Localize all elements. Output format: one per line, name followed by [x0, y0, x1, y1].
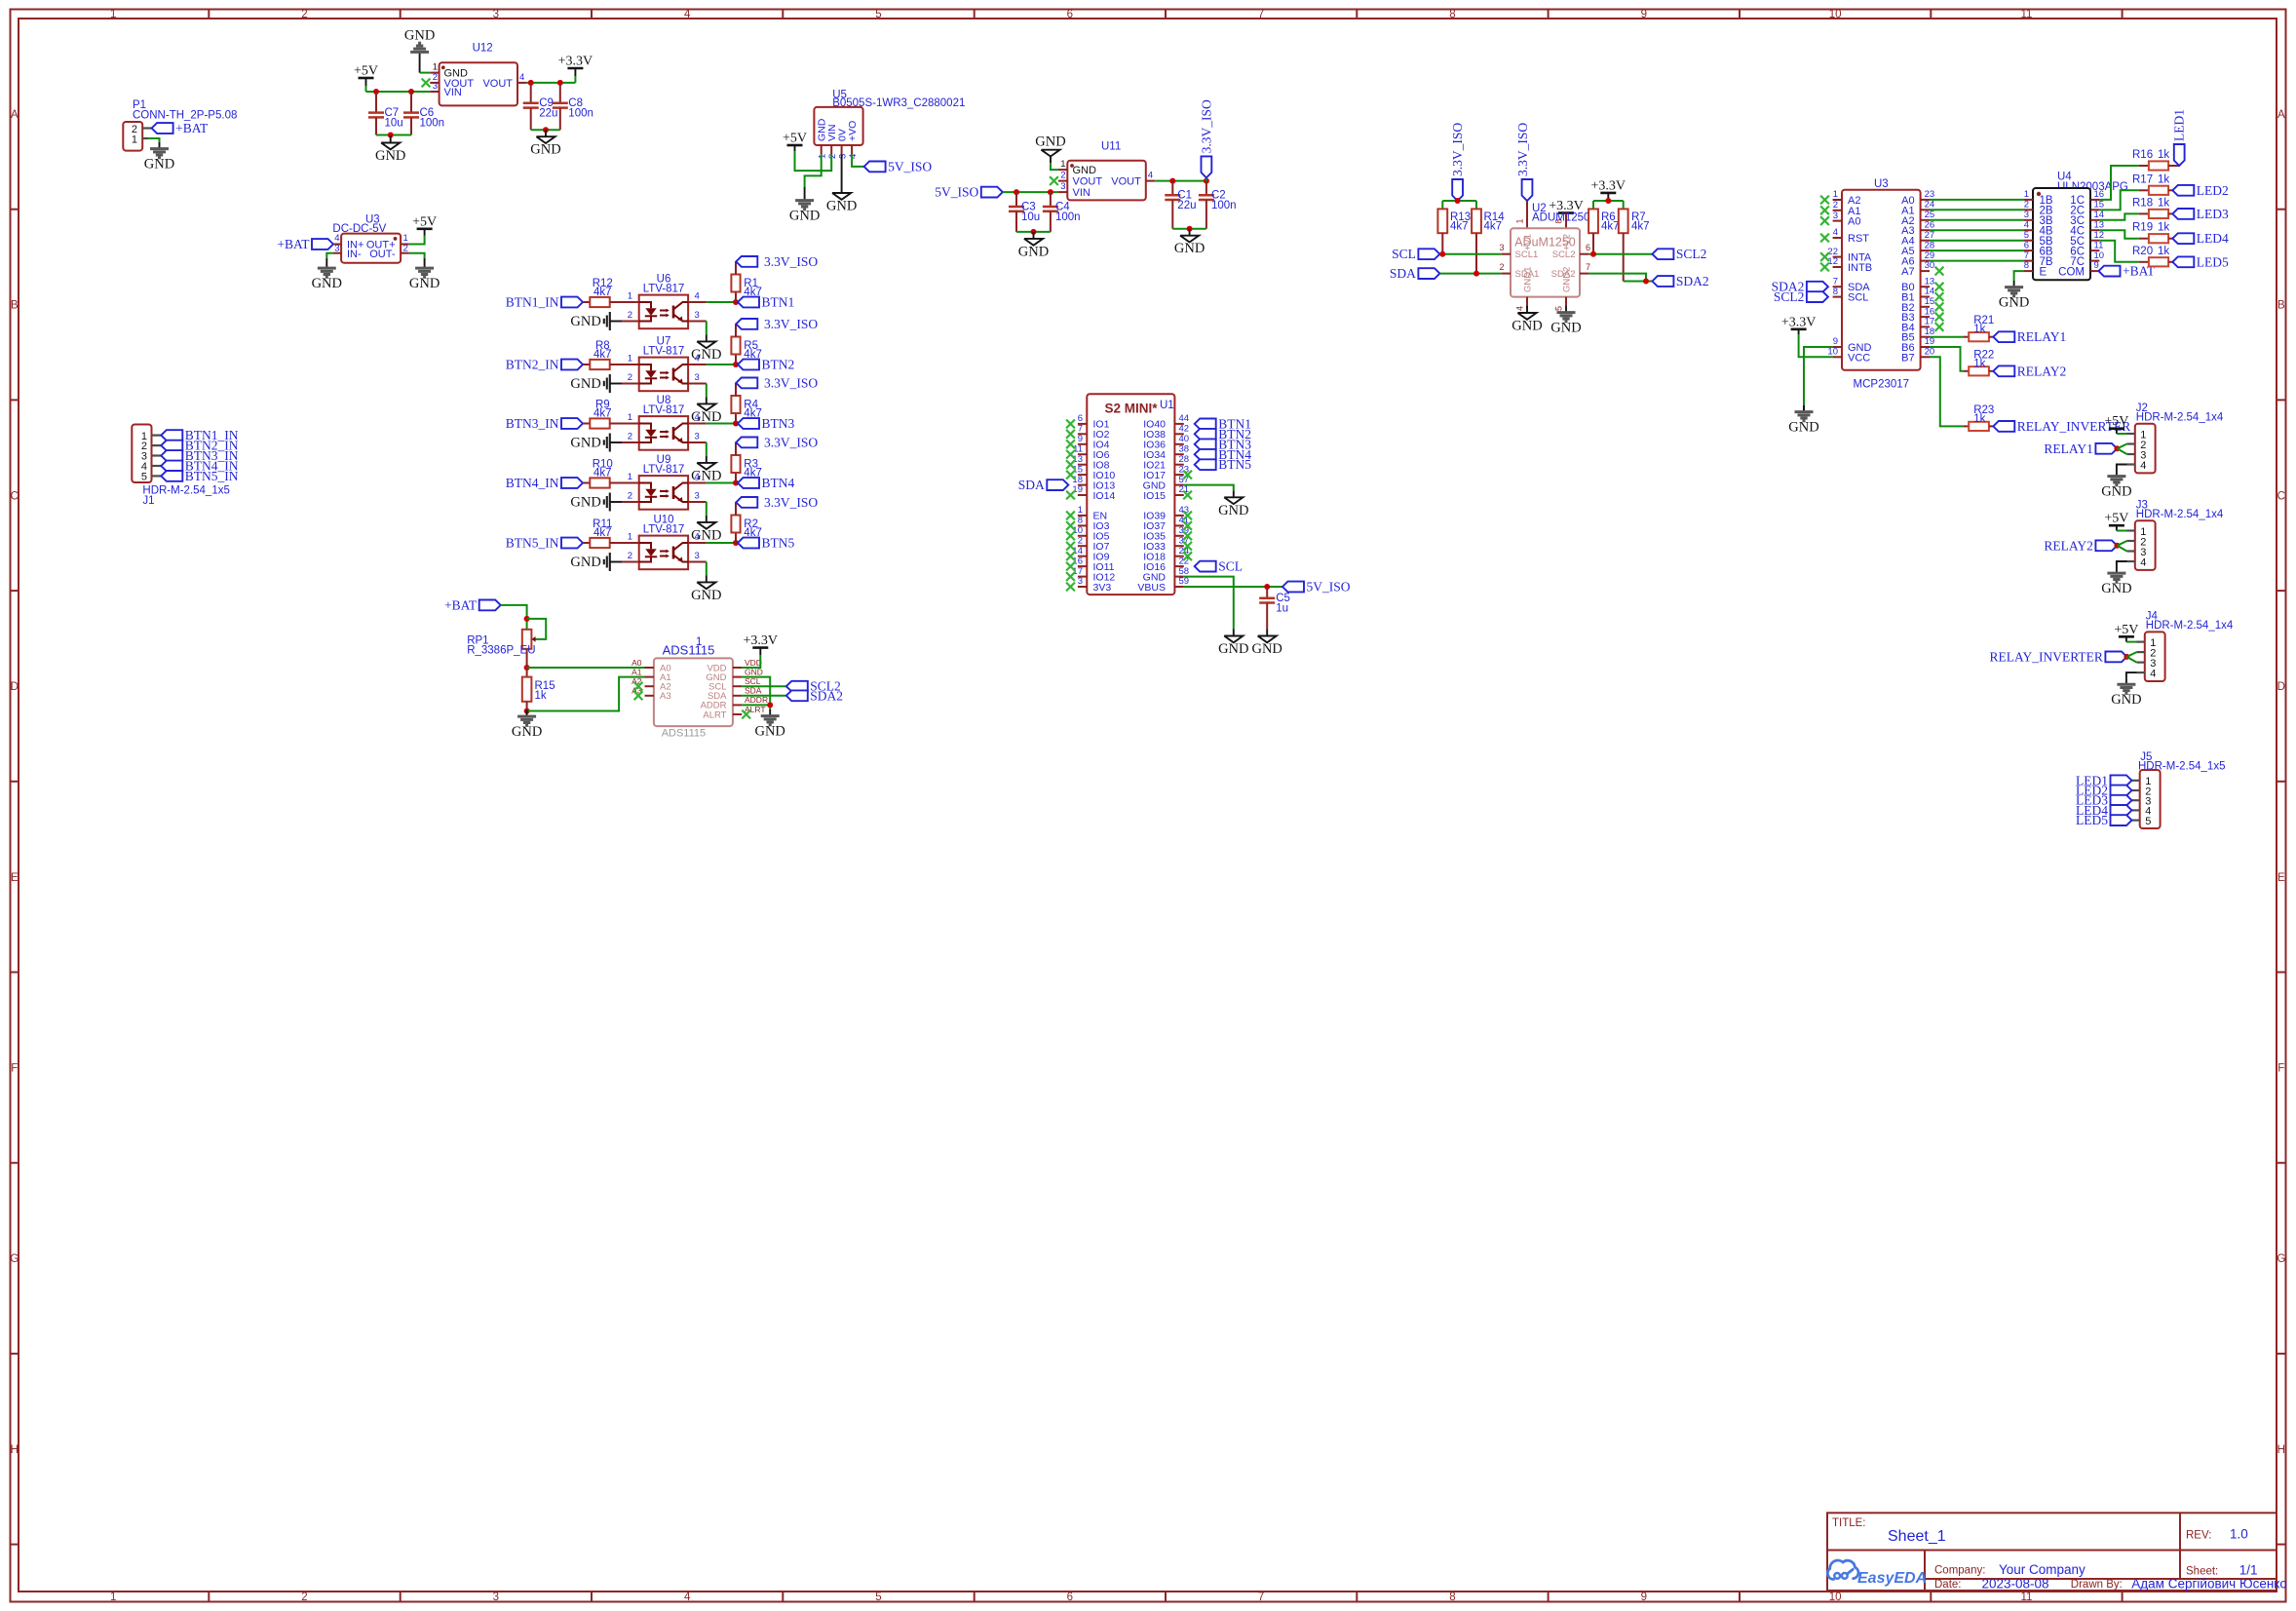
svg-text:F: F	[2277, 1063, 2284, 1075]
svg-text:2: 2	[1833, 200, 1838, 211]
svg-text:EasyEDA: EasyEDA	[1857, 1570, 1927, 1587]
net flag LED1 at J5	[2076, 773, 2132, 787]
svg-text:REV:: REV:	[2186, 1530, 2211, 1542]
svg-text:+3.3V: +3.3V	[1781, 315, 1817, 329]
svg-text:19: 19	[1072, 484, 1083, 495]
potentiometer RP1 R_3386P_EU	[467, 619, 546, 657]
wire +5V to J3 pin1	[2117, 530, 2127, 532]
ground GND below C7 C6	[375, 136, 405, 165]
wire U9 pin3 to ground	[688, 502, 707, 516]
svg-text:U3: U3	[1874, 178, 1889, 190]
svg-text:BTN5_IN: BTN5_IN	[185, 469, 239, 483]
svg-text:Date:: Date:	[1934, 1579, 1962, 1591]
net flag BTN2_IN at J1	[161, 439, 238, 453]
svg-text:1k: 1k	[1973, 358, 1985, 369]
wire GND to U12 pin1	[420, 72, 431, 74]
wire BTN4_IN to R10	[583, 482, 590, 484]
net flag SCL2	[1652, 247, 1706, 261]
svg-text:6: 6	[2024, 240, 2029, 250]
IC U5 B0505S-1WR3	[814, 90, 965, 160]
svg-text:1: 1	[110, 1592, 116, 1603]
wire SDA to U2 SDA1	[1439, 271, 1501, 277]
svg-text:12: 12	[2094, 230, 2105, 241]
resistor R14 4k7	[1472, 209, 1505, 273]
wire U4 output to R16	[2099, 166, 2139, 200]
svg-text:1k: 1k	[1973, 413, 1985, 425]
svg-text:1: 1	[2024, 189, 2029, 200]
svg-text:2: 2	[628, 372, 632, 383]
EasyEDA logo	[1827, 1560, 1927, 1587]
net flag LED5 at J5	[2076, 813, 2132, 827]
wire U2 SDA2 to flag	[1588, 274, 1652, 285]
wire BTN3_IN to R9	[583, 423, 590, 425]
net flag BTN3_IN	[506, 416, 583, 431]
svg-text:9: 9	[1641, 1592, 1647, 1603]
svg-text:6: 6	[1067, 1592, 1073, 1603]
svg-text:6: 6	[1586, 243, 1590, 252]
svg-text:OUT-: OUT-	[369, 249, 396, 260]
net flag LED2 at J5	[2076, 784, 2132, 798]
svg-text:J1: J1	[142, 495, 154, 507]
svg-text:INTB: INTB	[1848, 262, 1872, 274]
resistor R18 1k	[2132, 197, 2169, 218]
svg-text:GND: GND	[1999, 295, 2029, 311]
resistor R13 4k7	[1437, 209, 1471, 253]
svg-text:3: 3	[695, 491, 700, 502]
resistor R12 4k7	[590, 278, 613, 307]
svg-text:8: 8	[1833, 287, 1838, 297]
wire U10 pin4 to BTN5 node	[688, 540, 739, 546]
optocoupler U10 LTV-817	[628, 515, 700, 570]
svg-text:1: 1	[818, 154, 828, 159]
svg-text:GND: GND	[530, 142, 560, 158]
svg-text:1: 1	[628, 354, 632, 364]
svg-text:LED4: LED4	[2197, 231, 2229, 246]
svg-text:3.3V_ISO: 3.3V_ISO	[1515, 123, 1530, 176]
svg-text:U12: U12	[473, 43, 493, 55]
svg-text:E: E	[2040, 266, 2047, 278]
svg-text:A0: A0	[1848, 216, 1860, 228]
ground GND at U6 pin3	[691, 334, 721, 363]
svg-text:40: 40	[1179, 434, 1190, 444]
svg-text:LTV-817: LTV-817	[643, 346, 685, 358]
resistor R6 4k7	[1588, 209, 1619, 253]
svg-text:GND: GND	[409, 276, 440, 291]
svg-text:4k7: 4k7	[593, 408, 612, 420]
svg-text:ADS1115: ADS1115	[663, 643, 715, 658]
svg-text:B: B	[11, 300, 19, 312]
wire U1 VBUS to 5V_ISO	[1184, 584, 1282, 590]
wire +5V to J2 pin1	[2117, 433, 2127, 435]
svg-text:GND: GND	[1218, 503, 1248, 518]
svg-text:SCL: SCL	[1392, 247, 1416, 261]
capacitor C7 10u	[368, 92, 403, 135]
svg-text:1: 1	[1060, 159, 1065, 170]
ground GND at ADS1115	[754, 710, 784, 740]
connector J5 HDR-M-2.54_1x5	[2132, 751, 2226, 828]
svg-text:U11: U11	[1101, 141, 1121, 153]
svg-text:+5V: +5V	[2104, 512, 2128, 526]
svg-text:100n: 100n	[1055, 211, 1081, 223]
svg-text:5V_ISO: 5V_ISO	[888, 159, 932, 173]
resistor R15 1k	[522, 668, 555, 711]
svg-text:9: 9	[1078, 434, 1083, 444]
wire J3 pin4 to ground	[2117, 561, 2127, 567]
svg-text:4: 4	[684, 9, 691, 20]
svg-text:5: 5	[1554, 306, 1564, 311]
svg-text:100n: 100n	[420, 118, 445, 130]
net flag BTN4_IN	[506, 476, 583, 490]
svg-text:30: 30	[1925, 260, 1935, 271]
wire U6 pin4 to BTN1 node	[688, 299, 739, 305]
svg-text:A: A	[11, 109, 19, 121]
svg-text:+5V: +5V	[2114, 623, 2138, 637]
wire BTN1_IN to R12	[583, 301, 590, 303]
power +5V at J3	[2104, 512, 2128, 531]
svg-text:10u: 10u	[385, 118, 403, 130]
svg-text:58: 58	[1179, 566, 1190, 577]
svg-text:HDR-M-2.54_1x4: HDR-M-2.54_1x4	[2136, 509, 2224, 520]
svg-text:+3.3V: +3.3V	[744, 633, 779, 648]
svg-text:GND: GND	[1550, 321, 1581, 336]
net flag 3.3V_ISO at R4	[736, 375, 818, 390]
svg-text:GND: GND	[1035, 134, 1065, 150]
svg-text:2: 2	[1060, 171, 1065, 181]
svg-text:2: 2	[301, 1592, 307, 1603]
ground GND above U12	[404, 28, 435, 73]
svg-text:LTV-817: LTV-817	[643, 404, 685, 416]
power +3.3V at U3 VCC	[1781, 315, 1817, 334]
svg-text:4: 4	[684, 1592, 691, 1603]
net flag LED2	[2168, 183, 2229, 198]
svg-text:6: 6	[1067, 9, 1073, 20]
svg-text:3: 3	[334, 243, 339, 253]
capacitor C1 22u	[1165, 181, 1196, 229]
svg-text:1.0: 1.0	[2230, 1527, 2248, 1542]
svg-text:VIN: VIN	[444, 87, 462, 98]
wire RP1 to node A0	[524, 649, 645, 671]
svg-text:42: 42	[1179, 424, 1190, 435]
svg-text:6: 6	[1078, 413, 1083, 424]
svg-text:LTV-817: LTV-817	[643, 464, 685, 476]
power +5V at U12	[354, 64, 378, 87]
svg-text:3: 3	[695, 372, 700, 383]
net flag BTN2_IN	[506, 358, 583, 372]
wire U1 GND pin57 to ground	[1184, 485, 1234, 491]
wire U5 0V to ground	[841, 154, 843, 186]
net flag RELAY_INVERTER	[1993, 419, 2130, 434]
resistor R8 4k7	[590, 340, 611, 369]
svg-text:VCC: VCC	[1848, 352, 1870, 364]
svg-text:GND: GND	[2101, 484, 2131, 500]
ground GND at U8 pin2	[570, 434, 638, 452]
svg-text:F: F	[11, 1063, 18, 1075]
svg-text:R17: R17	[2132, 173, 2153, 185]
net flag 3.3V_ISO at U11 output	[1199, 99, 1213, 177]
svg-text:4: 4	[1833, 227, 1838, 238]
svg-text:4: 4	[1148, 171, 1153, 181]
svg-text:1: 1	[628, 412, 632, 423]
capacitor C8 100n	[553, 83, 593, 130]
power +3.3V at U2 +V2	[1549, 199, 1584, 228]
power +3.3V at U12 output	[558, 55, 593, 77]
svg-text:1k: 1k	[2158, 197, 2169, 209]
svg-text:1u: 1u	[1276, 603, 1288, 615]
svg-text:4: 4	[519, 72, 524, 83]
net flag RELAY2 at J3	[2044, 538, 2117, 553]
svg-text:LED5: LED5	[2076, 813, 2108, 827]
svg-text:23: 23	[1925, 189, 1935, 200]
svg-text:3: 3	[1499, 243, 1504, 252]
svg-text:12: 12	[1827, 256, 1838, 267]
svg-text:4k7: 4k7	[1450, 221, 1469, 233]
svg-text:D: D	[2277, 681, 2285, 693]
ground GND at U1 pin57	[1218, 490, 1248, 518]
svg-text:4k7: 4k7	[1484, 221, 1503, 233]
svg-text:24: 24	[1925, 200, 1935, 211]
ground GND at J3	[2101, 567, 2131, 597]
svg-text:3: 3	[1078, 576, 1083, 587]
svg-text:VDD: VDD	[745, 658, 762, 668]
svg-text:COM: COM	[2058, 266, 2085, 278]
svg-text:4: 4	[695, 472, 700, 482]
optocoupler U6 LTV-817	[628, 274, 700, 329]
net flag 5V_ISO at U5	[864, 159, 933, 173]
IC ADS1115	[631, 636, 768, 740]
resistor R9 4k7	[590, 400, 611, 429]
wire U4 E to ground	[2014, 271, 2024, 281]
svg-text:SCL2: SCL2	[1676, 247, 1707, 261]
net flag BTN4 at U1	[1195, 447, 1252, 462]
svg-text:4: 4	[2140, 460, 2146, 472]
svg-text:11: 11	[1073, 443, 1083, 454]
IC U3 DC-DC-5V	[332, 213, 408, 262]
ground GND at U3 output	[409, 262, 440, 292]
svg-text:7: 7	[1833, 276, 1838, 287]
svg-text:U1: U1	[1160, 400, 1174, 411]
net flag SCL at U1	[1195, 559, 1243, 574]
power +3.3V at ADS1115	[744, 633, 779, 655]
ground GND at U2 GND1	[1512, 306, 1542, 334]
svg-text:8: 8	[1078, 516, 1083, 526]
net flag 3.3V_ISO at R3	[736, 435, 818, 449]
net flag 3.3V_ISO at R5	[736, 317, 818, 331]
svg-text:59: 59	[1179, 576, 1190, 587]
svg-text:7: 7	[1258, 9, 1264, 20]
svg-text:14: 14	[1072, 546, 1083, 556]
capacitor C3 10u	[1009, 192, 1040, 232]
wire J2 pin4 to ground	[2117, 465, 2127, 471]
svg-text:+V1: +V1	[1523, 234, 1534, 250]
svg-text:GND: GND	[512, 724, 542, 740]
svg-text:9: 9	[1641, 9, 1647, 20]
resistor R11 4k7	[590, 518, 612, 548]
resistor R4 4k7 pullup	[731, 383, 761, 424]
svg-text:16: 16	[2094, 189, 2105, 200]
svg-text:11: 11	[2021, 1592, 2033, 1603]
svg-text:4: 4	[1515, 306, 1525, 311]
IC U12 regulator	[430, 43, 526, 106]
svg-text:G: G	[2277, 1253, 2285, 1265]
ground GND at U1 pin58	[1218, 630, 1248, 658]
IC U11 regulator	[1058, 141, 1155, 201]
net flag SDA2 at ADS1115	[786, 688, 843, 703]
wire U6 pin3 to ground	[688, 322, 707, 335]
svg-text:100n: 100n	[568, 108, 593, 120]
net flag SDA at U1	[1018, 478, 1069, 492]
svg-text:8: 8	[1554, 218, 1564, 223]
svg-text:9: 9	[2094, 260, 2099, 271]
svg-text:GND2: GND2	[1562, 267, 1573, 292]
svg-text:C: C	[2277, 490, 2285, 502]
svg-text:SCL2: SCL2	[1774, 289, 1805, 304]
svg-text:4k7: 4k7	[744, 408, 762, 420]
svg-text:7: 7	[1586, 262, 1590, 272]
svg-text:S2 MINI*: S2 MINI*	[1104, 402, 1158, 416]
svg-text:BTN4: BTN4	[762, 476, 795, 490]
svg-text:3: 3	[695, 310, 700, 321]
svg-text:4: 4	[2024, 219, 2029, 230]
power +5V at U3 output	[412, 214, 437, 235]
svg-text:BTN3: BTN3	[762, 416, 795, 431]
svg-text:3: 3	[695, 432, 700, 442]
svg-text:3: 3	[838, 154, 849, 159]
net flag +BAT	[152, 121, 209, 135]
svg-text:38: 38	[1179, 443, 1190, 454]
svg-text:H: H	[2277, 1444, 2285, 1456]
capacitor C5 1u	[1259, 587, 1290, 630]
svg-text:+5V: +5V	[412, 214, 437, 229]
resistor R21 1k	[1963, 315, 1994, 341]
svg-text:2: 2	[628, 310, 632, 321]
ground GND below U3	[1788, 405, 1818, 436]
resistor R10 4k7	[590, 459, 613, 488]
svg-text:4k7: 4k7	[593, 527, 612, 539]
svg-text:+3.3V: +3.3V	[558, 55, 593, 69]
wire +BAT to RP1	[501, 605, 530, 630]
wire BTN5_IN to R11	[583, 542, 590, 544]
svg-text:2023-08-08: 2023-08-08	[1982, 1576, 2049, 1591]
svg-text:5V_ISO: 5V_ISO	[1307, 580, 1351, 595]
wire R15 bottom to A1 and ground	[524, 677, 645, 715]
svg-text:GND: GND	[1174, 241, 1205, 256]
svg-text:GND: GND	[1512, 319, 1542, 334]
connector J3 HDR-M-2.54_1x4	[2127, 499, 2224, 570]
svg-text:RST: RST	[1848, 233, 1869, 245]
svg-text:13: 13	[2094, 219, 2105, 230]
connector J1 HDR-M-2.54_1x5	[132, 425, 230, 508]
wire J4 pin4 to ground	[2126, 672, 2137, 678]
svg-text:4k7: 4k7	[744, 349, 762, 361]
wire U3 A3 to U4 4B	[1930, 229, 2024, 231]
capacitor C9 22u	[523, 83, 558, 130]
svg-text:5V_ISO: 5V_ISO	[935, 185, 978, 200]
power +5V at U5	[783, 132, 807, 152]
wire U3 OUT+ to +5V	[409, 236, 425, 245]
svg-text:SCL2: SCL2	[1552, 249, 1576, 260]
svg-text:RELAY1: RELAY1	[2017, 329, 2067, 344]
wire U4 output to R18	[2099, 213, 2139, 219]
ground GND at J2	[2101, 470, 2131, 500]
svg-text:G: G	[10, 1253, 19, 1265]
wire U7 pin3 to ground	[688, 384, 707, 398]
power +3.3V above R6 R7	[1591, 178, 1626, 201]
svg-text:4k7: 4k7	[593, 468, 612, 479]
svg-text:R18: R18	[2132, 197, 2153, 209]
svg-text:8: 8	[1449, 9, 1455, 20]
net flag BTN3	[738, 416, 795, 431]
svg-text:R16: R16	[2132, 149, 2153, 161]
wire SCL to U2 SCL1	[1439, 251, 1501, 257]
svg-text:4: 4	[2140, 556, 2146, 568]
svg-text:44: 44	[1179, 413, 1190, 424]
net flag 3.3V_ISO above U2	[1515, 123, 1532, 201]
wire +3.3V to VCC	[1799, 334, 1833, 357]
svg-text:4k7: 4k7	[593, 287, 612, 298]
svg-text:10u: 10u	[1021, 211, 1040, 223]
svg-text:BTN1_IN: BTN1_IN	[506, 295, 559, 310]
svg-text:3: 3	[493, 1592, 499, 1603]
ground GND below C9 C8	[530, 130, 560, 158]
svg-text:GND: GND	[144, 157, 174, 173]
svg-text:IO14: IO14	[1093, 490, 1116, 502]
svg-text:20: 20	[1925, 347, 1935, 358]
svg-text:1: 1	[110, 9, 116, 20]
net flag LED3 at J5	[2076, 793, 2132, 808]
svg-text:3.3V_ISO: 3.3V_ISO	[1199, 99, 1213, 153]
svg-text:3.3V_ISO: 3.3V_ISO	[1450, 123, 1465, 176]
wire 3.3V_ISO to R13 R14	[1442, 198, 1476, 209]
net flag 5V_ISO at U1 VBUS	[1282, 580, 1351, 595]
wire U3 A1 to U4 2B	[1930, 209, 2024, 211]
wire U3 A2 to U4 3B	[1930, 219, 2024, 221]
svg-text:26: 26	[1925, 219, 1935, 230]
svg-text:GND: GND	[375, 148, 405, 164]
ground GND at U7 pin2	[570, 374, 638, 393]
svg-text:SCL1: SCL1	[1515, 249, 1539, 260]
svg-text:Sheet_1: Sheet_1	[1888, 1528, 1946, 1545]
net flag BTN5_IN	[506, 536, 583, 551]
svg-text:1k: 1k	[2158, 222, 2169, 234]
net flag RELAY2	[1993, 364, 2066, 378]
svg-text:10: 10	[1829, 9, 1842, 20]
svg-text:22: 22	[1827, 247, 1838, 257]
ground GND at U3 input	[312, 262, 342, 292]
net flag +BAT at U3	[277, 237, 333, 251]
svg-text:2: 2	[628, 432, 632, 442]
wire +5V to J4 pin1	[2126, 641, 2137, 643]
svg-text:CONN-TH_2P-P5.08: CONN-TH_2P-P5.08	[133, 110, 237, 122]
svg-text:13: 13	[1072, 454, 1083, 465]
wire BTN2_IN to R8	[583, 364, 590, 365]
svg-text:1k: 1k	[1973, 324, 1985, 335]
svg-text:4: 4	[695, 291, 700, 302]
svg-text:4k7: 4k7	[593, 349, 612, 361]
svg-text:B: B	[2277, 300, 2285, 312]
title block	[1827, 1513, 2287, 1591]
svg-text:4k7: 4k7	[744, 527, 762, 539]
svg-text:1k: 1k	[2158, 246, 2169, 257]
svg-text:VOUT: VOUT	[482, 78, 513, 90]
svg-text:2: 2	[628, 491, 632, 502]
wire U10 pin3 to ground	[688, 562, 707, 576]
svg-text:10: 10	[1829, 1592, 1842, 1603]
svg-text:VOUT: VOUT	[1073, 176, 1103, 188]
svg-text:18: 18	[1072, 475, 1083, 485]
svg-text:GND: GND	[826, 199, 857, 214]
svg-text:A0: A0	[631, 658, 642, 668]
svg-text:E: E	[2277, 872, 2285, 884]
